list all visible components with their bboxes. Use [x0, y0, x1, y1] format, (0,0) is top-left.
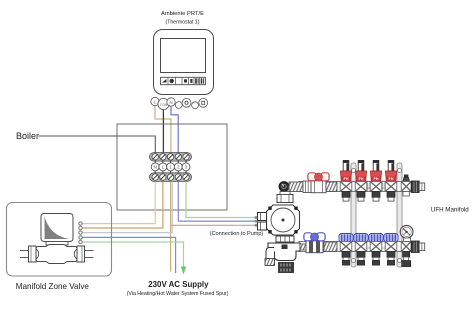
flow meter FM4 [385, 161, 397, 202]
pump P1 body [267, 205, 300, 235]
actuator A4 [384, 234, 398, 266]
pump top union [277, 192, 293, 203]
thermostat terminal 5 [182, 98, 191, 107]
green arrow supply [181, 267, 187, 275]
pump tee body [268, 243, 300, 261]
label Boiler [16, 131, 39, 141]
thermostat buttons [161, 77, 206, 84]
flow rail end cap [411, 181, 425, 193]
wiring centre enclosure [117, 124, 227, 210]
wire brown to pump [171, 224, 255, 226]
return rail end cap [411, 241, 425, 253]
actuator A3 [369, 234, 383, 266]
terminal strip bottom [150, 173, 192, 182]
svg-text:L: L [162, 165, 165, 170]
flow rail ball valve red [308, 173, 329, 193]
drain elbow left [265, 248, 275, 266]
wire blue to pump [178, 181, 255, 221]
flow rail gap ribs [368, 183, 385, 191]
pump connection dots [255, 216, 258, 227]
zone valve terminals [79, 222, 82, 244]
actuator A1 [339, 234, 353, 266]
return rail pipe [299, 242, 414, 252]
flow rail air vent [401, 175, 411, 197]
manifold bracket left [351, 163, 356, 267]
svg-text:(Thermostat 1): (Thermostat 1) [165, 20, 199, 26]
wire boiler to terminal 1 [39, 136, 156, 153]
svg-text:1: 1 [169, 165, 172, 170]
thermostat terminal 4 [175, 102, 182, 109]
pipe pump to return valve [300, 244, 306, 250]
manifold zone valve enclosure [7, 203, 112, 277]
flow rail inlet fitting [289, 181, 311, 193]
svg-text:Boiler: Boiler [16, 131, 39, 141]
zone valve union nut left [29, 246, 39, 262]
wire black thermostat COM to terminal 2 [162, 110, 164, 153]
svg-text:N: N [154, 165, 157, 170]
svg-text:N: N [169, 100, 172, 105]
thermostat screen [161, 39, 206, 73]
flow meter FM2 [355, 161, 367, 202]
drain cap ribbed [279, 263, 294, 273]
flow rail thermometer [279, 182, 289, 192]
svg-text:3: 3 [185, 165, 188, 170]
label Via Heating [127, 291, 229, 297]
wire orange to valve terminal 2 [82, 181, 163, 228]
label Connection to Pump [210, 231, 264, 237]
thermostat terminal N [167, 98, 175, 106]
label Manifold Zone Valve [16, 282, 90, 291]
svg-text:Ambiente PRT/E: Ambiente PRT/E [161, 11, 204, 17]
wire tan to valve terminal 1 [82, 181, 155, 223]
label (Thermostat 1) [165, 20, 199, 26]
terminal strip top [150, 153, 192, 162]
return rail fitting 2 [324, 242, 337, 252]
svg-text:2: 2 [177, 165, 180, 170]
label 230V AC Supply [148, 280, 209, 289]
svg-text:UFH Manifold: UFH Manifold [431, 206, 469, 213]
terminal labels N L 1 2 3 [151, 163, 190, 171]
wire tan thermostat L to terminal 3 [155, 106, 171, 153]
thermostat terminal L [151, 97, 159, 105]
thermostat terminal COM [158, 98, 169, 109]
manifold bracket right [397, 163, 402, 267]
svg-text:Manifold Zone Valve: Manifold Zone Valve [16, 282, 90, 291]
pump terminal box [258, 213, 267, 231]
thermostat terminal 6 [192, 102, 199, 109]
zone valve pipe right [85, 251, 94, 258]
flow rail pipe [299, 182, 412, 192]
svg-text:230V AC Supply: 230V AC Supply [148, 280, 209, 289]
thermostat terminal 7 [199, 98, 208, 107]
wire tan supply live [170, 181, 172, 271]
wire blue thermostat N to terminal 4 [171, 106, 178, 152]
flow meter FM3 [370, 161, 382, 202]
svg-text:(Connection to Pump): (Connection to Pump) [210, 231, 264, 237]
pressure gauge [400, 225, 413, 238]
svg-text:(Via Heating/Hot Water System: (Via Heating/Hot Water System Fused Spur… [127, 291, 229, 297]
return rail drain union [401, 238, 411, 267]
wire green to pump [186, 181, 255, 217]
zone valve body [36, 245, 77, 264]
wire green supply earth [82, 242, 184, 267]
wire grey to valve terminal 3 [82, 181, 172, 232]
flow meter FM1 [340, 161, 352, 202]
zone valve pipe left [20, 251, 29, 258]
label Ambiente PRT/E [161, 11, 204, 17]
return rail ball valve blue [304, 233, 325, 253]
svg-text:COM: COM [160, 103, 168, 107]
wire blue supply neutral [82, 237, 176, 273]
actuator A2 [354, 234, 368, 266]
thermostat U1 body [154, 30, 214, 95]
pump bottom union [276, 236, 294, 242]
terminal stubs [155, 161, 186, 174]
zone valve actuator head [41, 214, 73, 246]
flow rail fitting 2 [326, 182, 337, 192]
label UFH Manifold [431, 206, 469, 213]
zone valve union nut right [74, 246, 84, 262]
